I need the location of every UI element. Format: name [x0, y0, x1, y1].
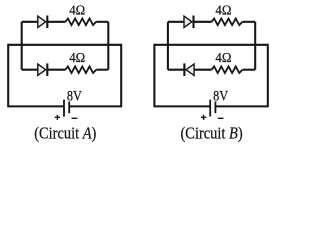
caption (Circuit A): [34, 124, 96, 142]
label 8V (circuit A battery value): [67, 87, 82, 103]
svg-text:4Ω: 4Ω: [215, 50, 231, 66]
wire: circuit B top branch between diode and resistor: [194, 21, 212, 23]
svg-text:8V: 8V: [213, 87, 228, 103]
label 4ohm (R1 circuit B): [215, 2, 231, 18]
caption (Circuit B): [181, 124, 243, 142]
svg-text:(Circuit A): (Circuit A): [34, 124, 96, 142]
wire: circuit B middle branch between diode and resistor: [194, 69, 212, 71]
wire: circuit A top branch right lead: [96, 21, 108, 23]
wire: circuit B left junction vertical (top to middle branch): [167, 22, 169, 70]
label 8V (circuit B battery value): [213, 87, 228, 103]
wire: circuit A middle branch between diode and resistor: [47, 69, 65, 71]
wire: circuit B outer right vertical: [267, 44, 269, 107]
wire: circuit B bottom right segment from battery: [215, 105, 268, 107]
wire: circuit B top branch right lead: [242, 21, 255, 23]
label plus terminal (circuit B battery): [201, 115, 206, 120]
wire: circuit A top branch left lead: [22, 21, 38, 23]
label 4ohm (R2 circuit A): [69, 50, 85, 66]
diode D2 (circuit A middle branch, anode left): [38, 63, 48, 76]
wire: circuit B bottom left segment to battery: [154, 105, 211, 107]
resistor R2 4ohm (circuit A middle branch): [65, 66, 96, 73]
battery 8V (circuit A): long positive plate: [63, 100, 65, 117]
label minus terminal (circuit A battery): [72, 117, 78, 119]
wire: circuit B outer left vertical: [153, 44, 155, 107]
battery 8V (circuit B): long positive plate: [209, 100, 211, 117]
battery 8V (circuit A): short negative plate: [68, 102, 70, 114]
diode D2 (circuit B middle branch, reversed, cathode left): [184, 63, 194, 76]
svg-text:(Circuit B): (Circuit B): [181, 124, 243, 142]
resistor R2 4ohm (circuit B middle branch): [212, 66, 243, 73]
resistor R1 4ohm (circuit B top branch): [212, 19, 243, 26]
svg-text:4Ω: 4Ω: [215, 2, 231, 18]
wire: circuit A middle branch right lead: [96, 69, 108, 71]
wire: circuit A left junction vertical (top to middle branch): [21, 22, 23, 70]
wire: circuit B horizontal bus (outer top side): [154, 44, 267, 46]
wire: circuit B right junction vertical (top to middle branch): [254, 22, 256, 70]
wire: circuit A right junction vertical (top to middle branch): [107, 22, 109, 70]
wire: circuit B middle branch left lead: [168, 69, 185, 71]
wire: circuit B middle branch right lead: [242, 69, 255, 71]
battery 8V (circuit B): short negative plate: [214, 102, 216, 114]
diode D1 (circuit A top branch, anode left): [38, 16, 48, 29]
label minus terminal (circuit B battery): [218, 117, 224, 119]
wire: circuit A top branch between diode and resistor: [47, 21, 65, 23]
wire: circuit A middle branch left lead: [22, 69, 38, 71]
svg-text:8V: 8V: [67, 87, 82, 103]
wire: circuit A bottom right segment from battery: [69, 105, 122, 107]
wire: circuit B top branch left lead: [168, 21, 184, 23]
label 4ohm (R1 circuit A): [69, 2, 85, 18]
label plus terminal (circuit A battery): [55, 115, 60, 120]
svg-text:4Ω: 4Ω: [69, 2, 85, 18]
wire: circuit A outer right vertical: [120, 44, 122, 107]
label 4ohm (R2 circuit B): [215, 50, 231, 66]
diode D1 (circuit B top branch, anode left): [184, 16, 194, 29]
wire: circuit A bottom left segment to battery: [7, 105, 64, 107]
svg-text:4Ω: 4Ω: [69, 50, 85, 66]
resistor R1 4ohm (circuit A top branch): [65, 19, 96, 26]
wire: circuit A horizontal bus (outer top side): [8, 44, 121, 46]
wire: circuit A outer left vertical: [7, 44, 9, 107]
